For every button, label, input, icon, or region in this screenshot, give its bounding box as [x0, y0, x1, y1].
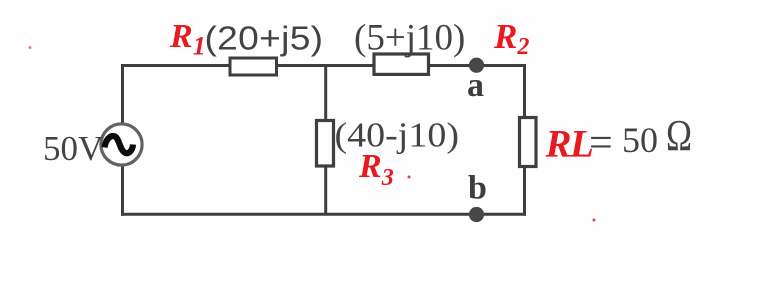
svg-text:b: b — [468, 170, 487, 207]
svg-text:50: 50 — [622, 120, 658, 160]
svg-text:R2: R2 — [493, 17, 529, 60]
resistor R3 body — [317, 121, 334, 167]
svg-text:Ω: Ω — [666, 111, 692, 160]
wire left vertical — [121, 64, 124, 216]
wire top — [121, 64, 526, 67]
svg-text:=: = — [589, 121, 613, 167]
svg-text:50V: 50V — [43, 129, 103, 168]
resistor R2 body — [374, 54, 429, 74]
sine symbol — [105, 136, 134, 153]
svg-text:RL: RL — [545, 123, 594, 166]
scan speck 3 — [593, 219, 596, 222]
scan speck 1 — [29, 46, 32, 49]
scan speck 2 — [408, 176, 411, 179]
node b dot — [469, 207, 484, 222]
svg-text:(40-j10): (40-j10) — [335, 115, 459, 154]
svg-text:R3: R3 — [358, 148, 394, 191]
wire middle branch — [324, 66, 327, 214]
svg-text:(5+j10): (5+j10) — [354, 18, 465, 59]
voltage source V1 50V AC — [101, 124, 142, 165]
wire bottom — [121, 213, 526, 216]
svg-text:a: a — [467, 67, 484, 104]
svg-text:R1: R1 — [169, 18, 206, 61]
node a dot — [469, 58, 484, 73]
wire right vertical — [523, 64, 526, 216]
svg-text:(20+j5): (20+j5) — [205, 20, 324, 57]
resistor RL body — [520, 118, 537, 167]
resistor R1 body — [230, 58, 277, 75]
